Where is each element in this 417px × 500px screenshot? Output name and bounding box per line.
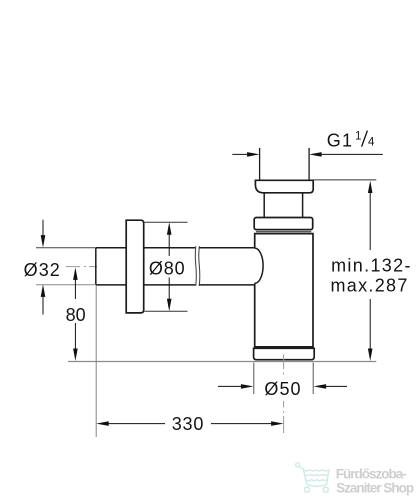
min/max dimension line (vertical with up/down arrows) bbox=[369, 190, 371, 352]
svg-text:Szaniter Shop: Szaniter Shop bbox=[336, 481, 414, 496]
inlet spigot arc into bottle bbox=[255, 248, 263, 283]
svg-text:80: 80 bbox=[66, 305, 86, 325]
bottle centerline (vertical dash-dot) bbox=[283, 355, 285, 434]
dia80 extension lines bbox=[144, 222, 187, 311]
neck bbox=[264, 193, 302, 218]
baseline (floor reference line) bbox=[68, 361, 376, 363]
top flange (nut) bbox=[255, 180, 313, 193]
watermark shopping cart icon bbox=[296, 463, 329, 492]
330 dimension left extension line bbox=[95, 286, 97, 437]
svg-text:G1: G1 bbox=[327, 131, 354, 151]
inlet pipe (horizontal tube) bbox=[96, 248, 255, 285]
svg-text:Ø50: Ø50 bbox=[264, 379, 301, 399]
top pipe (G1 1/4 thread) edges bbox=[260, 148, 310, 180]
G1 1/4 dimension line right part bbox=[319, 153, 383, 155]
svg-text:Fürdőszoba-: Fürdőszoba- bbox=[336, 466, 406, 481]
80 dimension line (vertical, broken by text) bbox=[74, 277, 76, 352]
dia32 bottom extension line bbox=[36, 284, 96, 286]
svg-text:330: 330 bbox=[172, 414, 204, 434]
svg-text:Ø32: Ø32 bbox=[24, 260, 61, 280]
dia32 top extension line bbox=[36, 247, 96, 249]
inlet pipe centerline bbox=[66, 266, 97, 268]
dia50 dimension line (outside arrows) bbox=[218, 385, 347, 387]
svg-text:Ø80: Ø80 bbox=[149, 258, 186, 278]
G1 1/4 dimension line left part bbox=[232, 153, 250, 155]
bottom cap bbox=[254, 348, 315, 359]
joint line under cap ring bbox=[256, 231, 311, 233]
bottle body bbox=[255, 234, 313, 347]
dia50 extension lines bbox=[254, 363, 313, 395]
dia80 dimension line (vertical, broken by text) bbox=[168, 232, 170, 302]
svg-text:min.132-: min.132- bbox=[331, 256, 412, 276]
wall flange (escutcheon) bbox=[126, 220, 144, 313]
pipe break symbol (two wavy lines) bbox=[195, 246, 200, 286]
svg-text:1: 1 bbox=[355, 130, 361, 142]
svg-text:4: 4 bbox=[368, 137, 375, 149]
dia32 dimension arrows (outside, vertical at x=43) bbox=[42, 220, 44, 315]
cap ring (bottle top collar) bbox=[254, 218, 313, 230]
330 dimension line (broken by text) bbox=[106, 423, 274, 425]
min/max top extension line bbox=[313, 179, 376, 181]
svg-text:max.287: max.287 bbox=[331, 276, 409, 296]
